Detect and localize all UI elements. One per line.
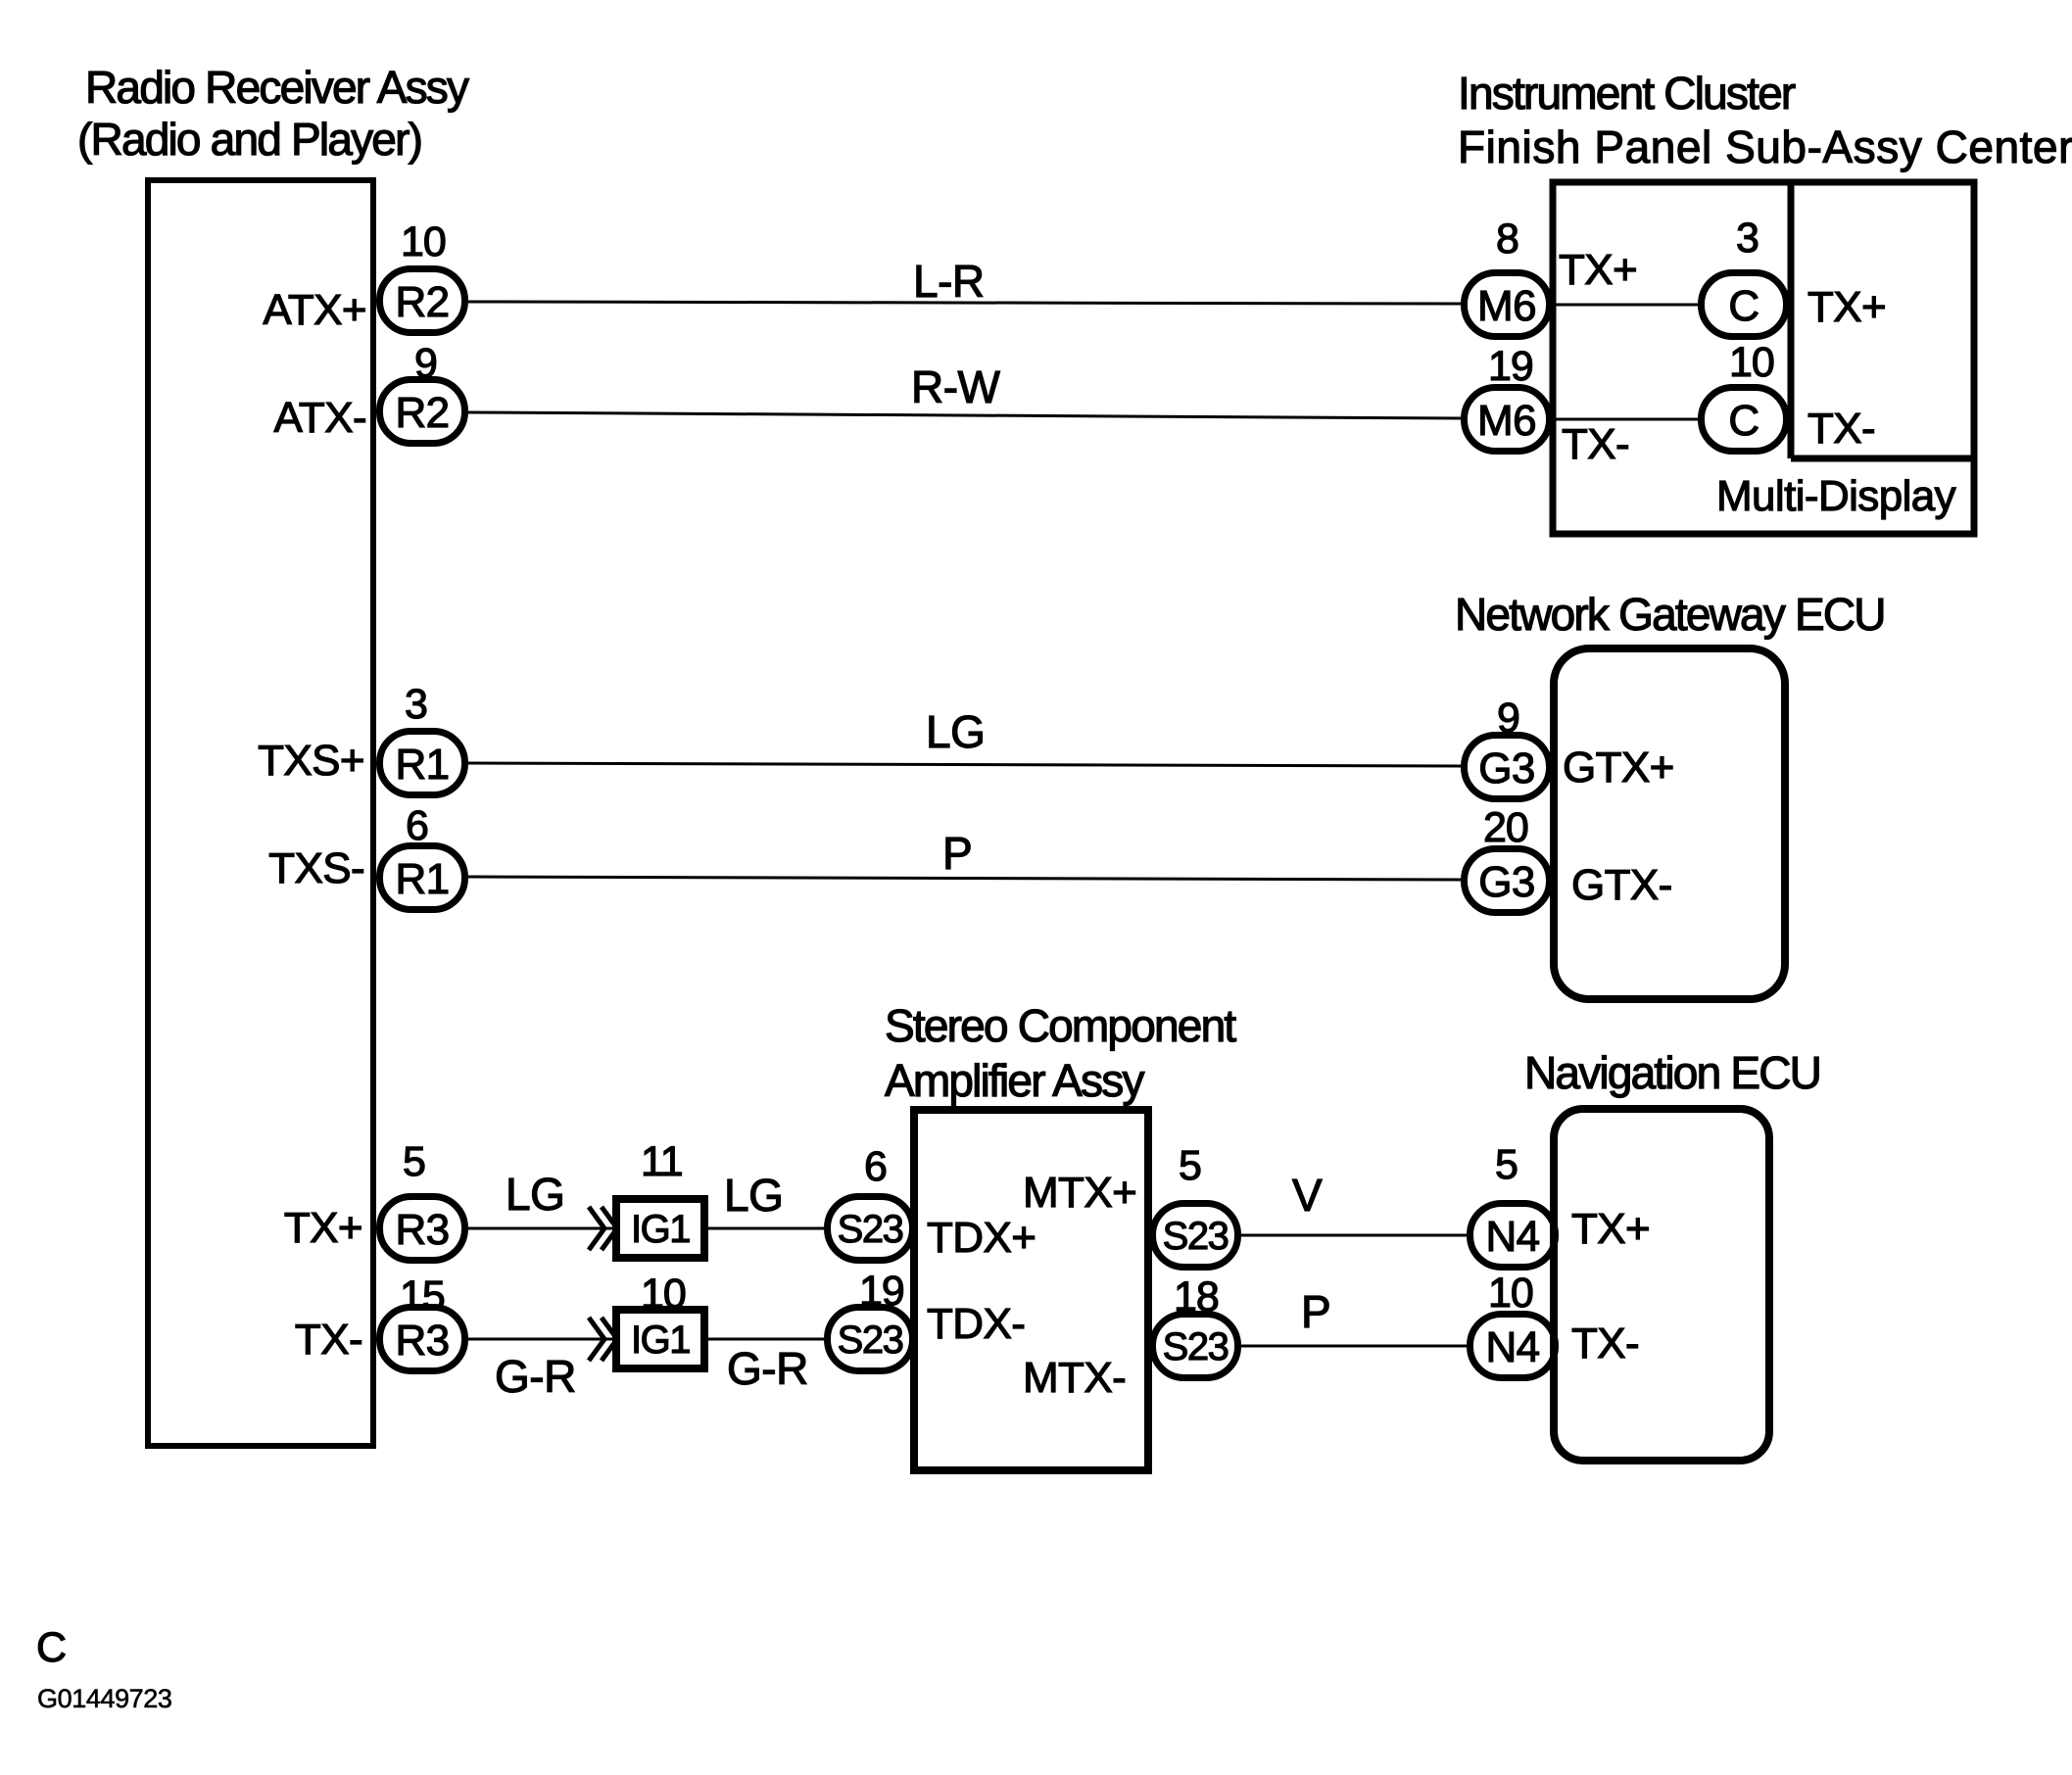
connector S23 pin 18 right side	[1153, 1315, 1238, 1378]
svg-text:R1: R1	[395, 741, 449, 789]
connector R1 pin 6	[380, 846, 465, 910]
svg-text:R-W: R-W	[911, 361, 1001, 412]
junction IG1 row6	[616, 1310, 704, 1368]
connector R1 pin 3	[380, 732, 465, 795]
svg-text:S23: S23	[1163, 1215, 1229, 1258]
svg-text:LG: LG	[724, 1170, 783, 1221]
wire: MTX- P from S23 to N4	[1239, 1345, 1467, 1348]
splice arrows into IG1 row6	[589, 1318, 617, 1361]
connector R2 pin 10	[380, 269, 465, 333]
svg-text:TX+: TX+	[1807, 283, 1886, 331]
svg-text:R3: R3	[395, 1317, 449, 1365]
svg-text:Radio Receiver Assy: Radio Receiver Assy	[85, 62, 469, 113]
svg-text:N4: N4	[1485, 1323, 1539, 1371]
component box: Navigation ECU	[1554, 1109, 1769, 1461]
svg-text:5: 5	[1495, 1141, 1518, 1188]
component box: Radio Receiver Assy	[148, 180, 373, 1446]
svg-text:6: 6	[406, 802, 428, 849]
svg-text:5: 5	[1179, 1142, 1201, 1189]
divider wall inside instrument cluster box	[1788, 182, 1795, 458]
connector R3 pin 15	[380, 1308, 465, 1371]
wire: MTX+ V from S23 to N4	[1239, 1234, 1467, 1237]
svg-text:P: P	[1301, 1286, 1330, 1337]
svg-text:Multi-Display: Multi-Display	[1716, 472, 1956, 520]
splice arrows into IG1 row5	[589, 1207, 617, 1250]
svg-text:G3: G3	[1478, 858, 1535, 906]
svg-text:R1: R1	[395, 855, 449, 903]
wire: TXS+ LG from R1 to G3	[468, 763, 1462, 766]
svg-text:ATX-: ATX-	[273, 394, 366, 442]
multi-display partition bottom line	[1791, 456, 1974, 462]
svg-text:IG1: IG1	[631, 1319, 690, 1362]
svg-text:19: 19	[1488, 343, 1533, 390]
svg-text:TXS+: TXS+	[258, 737, 364, 785]
wire: TX- G-R from R3 to IG1	[468, 1338, 613, 1341]
svg-text:TDX-: TDX-	[927, 1300, 1025, 1348]
svg-text:Finish Panel Sub-Assy Center: Finish Panel Sub-Assy Center	[1458, 121, 2072, 172]
svg-text:TX-: TX-	[1571, 1319, 1639, 1367]
connector G3 pin 9	[1465, 736, 1550, 799]
svg-text:GTX+: GTX+	[1563, 744, 1674, 792]
connector M6 pin 8	[1465, 273, 1550, 337]
svg-text:11: 11	[641, 1138, 683, 1185]
svg-text:Amplifier Assy: Amplifier Assy	[885, 1055, 1144, 1106]
svg-text:TX-: TX-	[295, 1316, 362, 1364]
svg-text:L-R: L-R	[913, 256, 985, 307]
svg-text:S23: S23	[838, 1319, 903, 1362]
svg-text:Navigation ECU: Navigation ECU	[1524, 1047, 1820, 1098]
svg-text:C: C	[1728, 282, 1759, 330]
svg-text:GTX-: GTX-	[1571, 861, 1672, 909]
svg-text:C: C	[1728, 397, 1759, 445]
svg-text:TX+: TX+	[1571, 1205, 1650, 1253]
svg-text:Instrument Cluster: Instrument Cluster	[1458, 68, 1796, 119]
connector S23 pin 19	[828, 1308, 913, 1371]
svg-text:Stereo Component: Stereo Component	[885, 1000, 1236, 1051]
svg-text:Network Gateway ECU: Network Gateway ECU	[1455, 589, 1885, 640]
svg-text:10: 10	[1729, 339, 1774, 386]
component box: Stereo Component Amplifier Assy	[914, 1110, 1148, 1470]
svg-text:S23: S23	[1163, 1325, 1229, 1368]
svg-text:9: 9	[1497, 695, 1519, 742]
component box: Network Gateway ECU	[1554, 648, 1785, 999]
svg-text:G-R: G-R	[727, 1343, 808, 1394]
junction IG1 row5	[616, 1199, 704, 1258]
svg-text:S23: S23	[838, 1208, 903, 1251]
component box: Instrument Cluster Finish Panel Sub-Assy Center	[1553, 182, 1974, 534]
connector S23 pin 5 right side	[1153, 1204, 1238, 1268]
svg-text:N4: N4	[1485, 1213, 1539, 1261]
wire: ATX+ L-R from R2 to M6	[468, 302, 1461, 304]
wire: TX+ LG from R3 to IG1	[468, 1227, 613, 1230]
svg-text:P: P	[942, 828, 972, 879]
svg-text:TX+: TX+	[1559, 246, 1637, 294]
wire: TX- from M6 to C inside cluster	[1553, 418, 1698, 421]
svg-text:LG: LG	[926, 706, 985, 757]
connector R3 pin 5	[380, 1197, 465, 1261]
svg-text:3: 3	[405, 681, 427, 728]
svg-text:V: V	[1292, 1170, 1323, 1221]
svg-text:G-R: G-R	[495, 1351, 576, 1402]
svg-text:(Radio and Player): (Radio and Player)	[77, 114, 421, 165]
svg-text:M6: M6	[1477, 282, 1536, 330]
svg-text:LG: LG	[506, 1169, 564, 1220]
svg-text:6: 6	[864, 1143, 887, 1190]
svg-text:10: 10	[401, 218, 446, 265]
svg-text:IG1: IG1	[631, 1208, 690, 1251]
svg-text:3: 3	[1736, 215, 1759, 262]
svg-text:10: 10	[1488, 1270, 1533, 1317]
svg-text:18: 18	[1174, 1273, 1219, 1320]
svg-text:MTX-: MTX-	[1023, 1354, 1126, 1402]
connector C pin 10	[1702, 388, 1787, 452]
svg-text:8: 8	[1496, 216, 1518, 263]
svg-text:20: 20	[1483, 804, 1528, 851]
svg-text:ATX+: ATX+	[263, 286, 366, 334]
connector N4 pin 5	[1470, 1204, 1556, 1268]
wire: G-R from IG1 to S23	[708, 1338, 824, 1341]
connector S23 pin 6	[828, 1197, 913, 1261]
svg-text:R2: R2	[395, 278, 449, 326]
svg-text:G3: G3	[1478, 744, 1535, 792]
svg-text:R2: R2	[395, 389, 449, 437]
svg-text:R3: R3	[395, 1206, 449, 1254]
wire: TX+ from M6 to C inside cluster	[1553, 304, 1698, 307]
svg-text:TX-: TX-	[1562, 420, 1629, 468]
svg-text:G01449723: G01449723	[37, 1684, 172, 1713]
connector G3 pin 20	[1465, 849, 1550, 913]
svg-text:C: C	[36, 1624, 67, 1671]
wire: TXS- P from R1 to G3	[468, 877, 1462, 880]
svg-text:TDX+: TDX+	[927, 1214, 1036, 1262]
svg-text:5: 5	[403, 1138, 425, 1185]
svg-text:19: 19	[859, 1268, 904, 1315]
wire: LG from IG1 to S23	[708, 1227, 824, 1230]
connector R2 pin 9	[380, 380, 465, 444]
svg-text:9: 9	[414, 340, 437, 387]
connector C pin 3	[1702, 273, 1787, 337]
svg-text:10: 10	[641, 1271, 686, 1318]
svg-text:TX+: TX+	[284, 1204, 362, 1252]
svg-text:15: 15	[400, 1272, 445, 1319]
svg-text:TXS-: TXS-	[268, 844, 364, 892]
svg-text:M6: M6	[1477, 397, 1536, 445]
connector N4 pin 10	[1470, 1315, 1556, 1378]
svg-text:MTX+: MTX+	[1023, 1169, 1136, 1217]
wire: ATX- R-W from R2 to M6	[468, 412, 1461, 418]
connector M6 pin 19	[1465, 388, 1550, 452]
svg-text:TX-: TX-	[1807, 405, 1875, 453]
